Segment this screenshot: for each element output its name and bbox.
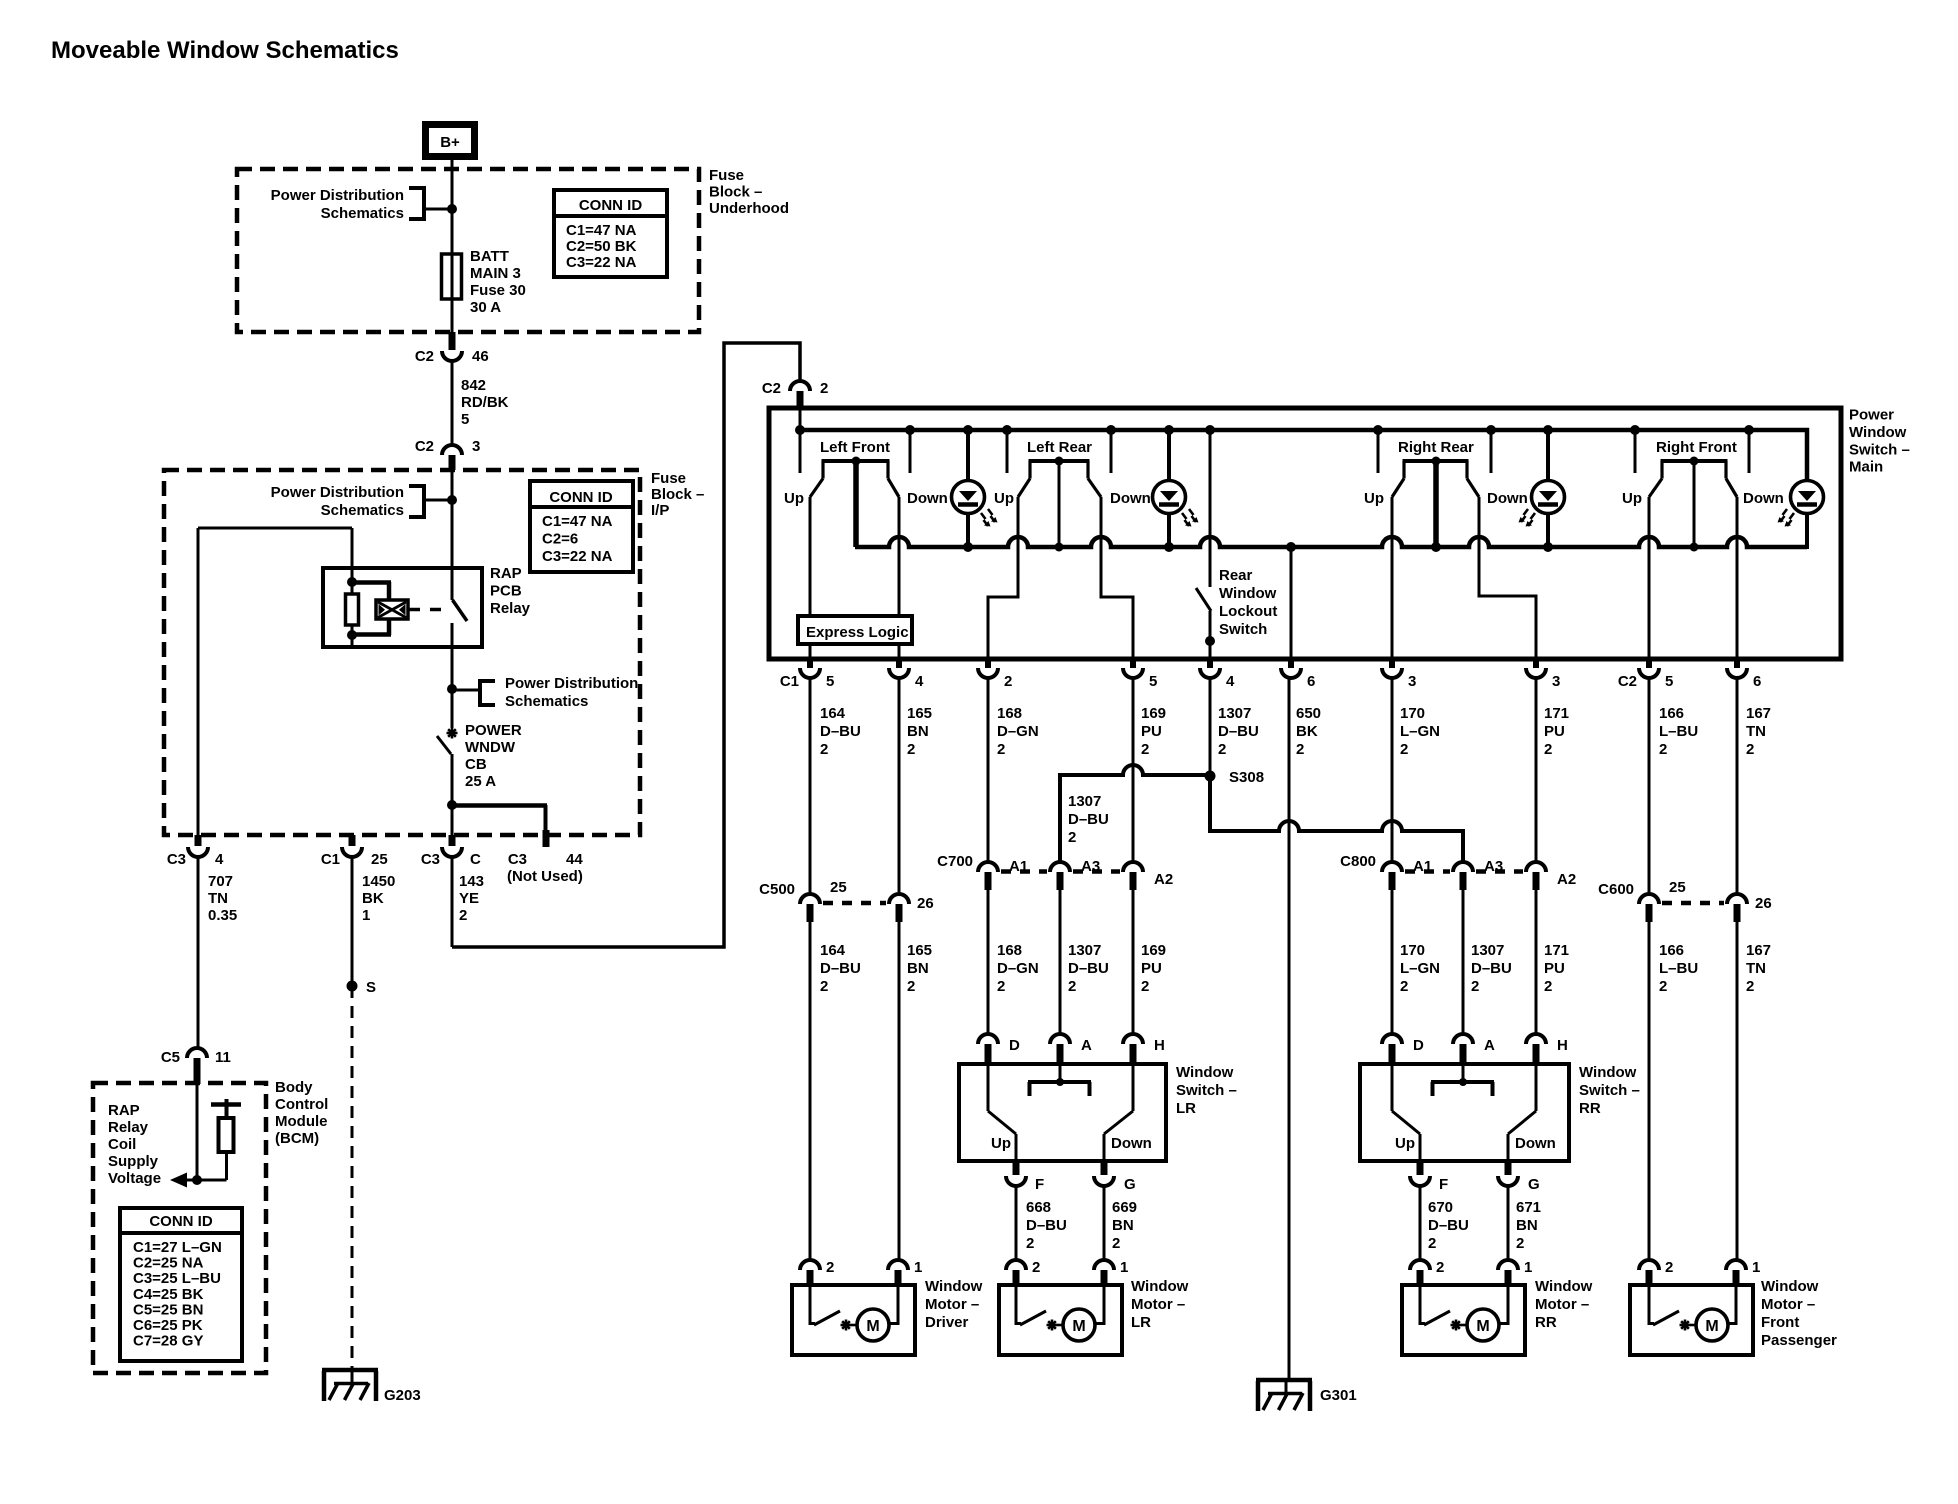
- wire 1307 D-BU 2: [1209, 678, 1212, 776]
- motor feed wire: [1507, 1285, 1510, 1325]
- rear window lockout switch: [1196, 588, 1211, 611]
- right rear up wire: [1391, 497, 1394, 659]
- svg-text:11: 11: [215, 1049, 231, 1066]
- svg-text:2: 2: [826, 1259, 834, 1276]
- wire 170 L-GN 2: [1391, 678, 1394, 862]
- connector C1 pin 25: [349, 835, 356, 846]
- svg-text:D–BU: D–BU: [1428, 1217, 1469, 1234]
- svg-text:46: 46: [472, 348, 489, 365]
- svg-text:Relay: Relay: [490, 600, 531, 617]
- window motor connector pin 1: [1094, 1260, 1114, 1270]
- svg-text:Power Distribution: Power Distribution: [271, 187, 404, 204]
- wire 168 to LR switch: [987, 890, 990, 1034]
- connector A (RR switch): [1453, 1034, 1473, 1044]
- svg-text:6: 6: [1307, 673, 1315, 690]
- svg-text:C5=25 BN: C5=25 BN: [133, 1301, 203, 1318]
- CONN ID table I/P: [530, 481, 633, 572]
- svg-text:Up: Up: [1622, 490, 1642, 507]
- svg-text:Power Distribution: Power Distribution: [505, 675, 638, 692]
- rocker switch body: [1661, 459, 1728, 463]
- svg-text:3: 3: [472, 438, 480, 455]
- splice branch to C700 A3: [1060, 765, 1210, 862]
- svg-text:Schematics: Schematics: [321, 502, 404, 519]
- svg-text:Fuse: Fuse: [651, 470, 686, 487]
- svg-text:Express Logic: Express Logic: [806, 624, 909, 641]
- svg-text:670: 670: [1428, 1199, 1453, 1216]
- wire 166 L-BU 2: [1648, 678, 1651, 894]
- window motor connector pin 2: [800, 1260, 820, 1270]
- motor M circle: [1063, 1309, 1095, 1341]
- connector D (RR switch): [1382, 1034, 1402, 1044]
- connector C1 pin 3 (right rear up): [1389, 659, 1395, 668]
- svg-text:PU: PU: [1544, 960, 1565, 977]
- wire relay to circuit breaker: [451, 647, 454, 728]
- wire 842 RD/BK 5: [451, 361, 454, 444]
- svg-text:1: 1: [1524, 1259, 1532, 1276]
- svg-text:A2: A2: [1154, 871, 1173, 888]
- svg-text:44: 44: [566, 851, 583, 868]
- svg-text:2: 2: [1659, 978, 1667, 995]
- svg-text:842: 842: [461, 377, 486, 394]
- svg-text:2: 2: [1026, 1235, 1034, 1252]
- svg-text:2: 2: [1471, 978, 1479, 995]
- connector C3 pin 4: [195, 835, 202, 846]
- wire 165 to driver motor: [898, 922, 901, 1260]
- power window switch main box: [769, 408, 1841, 659]
- wire 669 BN 2: [1103, 1186, 1106, 1260]
- svg-text:2: 2: [1665, 1259, 1673, 1276]
- wire 171 to RR switch: [1535, 890, 1538, 1034]
- LED left rear: [1167, 430, 1171, 481]
- motor M circle: [1696, 1309, 1728, 1341]
- svg-text:Window: Window: [1131, 1278, 1189, 1295]
- svg-text:CONN ID: CONN ID: [549, 489, 613, 506]
- svg-text:L–BU: L–BU: [1659, 723, 1698, 740]
- svg-text:2: 2: [1746, 978, 1754, 995]
- connector C500 pin 25: [800, 894, 820, 904]
- rear window lockout switch feed from bus: [1209, 430, 1212, 587]
- svg-text:B+: B+: [440, 134, 460, 151]
- svg-text:H: H: [1557, 1037, 1568, 1054]
- svg-text:2: 2: [1400, 741, 1408, 758]
- svg-text:H: H: [1154, 1037, 1165, 1054]
- svg-text:4: 4: [1226, 673, 1235, 690]
- connector C3 pin 44 not used stub: [543, 830, 550, 847]
- connector C1 pin 3 (right rear down): [1533, 659, 1539, 668]
- svg-text:1307: 1307: [1068, 942, 1101, 959]
- svg-text:164: 164: [820, 942, 846, 959]
- svg-text:2: 2: [820, 978, 828, 995]
- relay coil X symbol: [376, 600, 408, 619]
- connector C2 pin 3: [442, 445, 462, 455]
- svg-text:2: 2: [1659, 741, 1667, 758]
- svg-text:POWER: POWER: [465, 722, 522, 739]
- svg-text:2: 2: [459, 907, 467, 924]
- svg-text:25: 25: [1669, 879, 1686, 896]
- right rear down wire with jog: [1479, 497, 1536, 659]
- window motor connector pin 1: [1498, 1260, 1518, 1270]
- svg-text:RAP: RAP: [108, 1102, 140, 1119]
- svg-text:D–BU: D–BU: [820, 960, 861, 977]
- svg-text:RR: RR: [1535, 1314, 1557, 1331]
- svg-text:Right Rear: Right Rear: [1398, 439, 1474, 456]
- window motor box: [792, 1285, 915, 1355]
- motor feed wire: [1735, 1285, 1738, 1325]
- svg-text:1450: 1450: [362, 873, 395, 890]
- svg-text:Main: Main: [1849, 459, 1883, 476]
- body control module dashed box: [93, 1083, 266, 1373]
- fuse block I/P dashed box: [164, 470, 640, 835]
- svg-text:Schematics: Schematics: [505, 693, 588, 710]
- svg-text:LR: LR: [1131, 1314, 1151, 1331]
- rocker switch body: [1029, 459, 1090, 463]
- svg-text:3: 3: [1552, 673, 1560, 690]
- svg-text:Supply: Supply: [108, 1153, 159, 1170]
- connector C2 pin 46: [449, 332, 456, 350]
- svg-text:Up: Up: [784, 490, 804, 507]
- wire 164 D-BU 2: [809, 678, 812, 894]
- connector C2 pin 5 (right front up): [1646, 659, 1652, 668]
- svg-text:YE: YE: [459, 890, 479, 907]
- svg-text:6: 6: [1753, 673, 1761, 690]
- svg-text:1: 1: [362, 907, 370, 924]
- CONN ID table BCM: [120, 1208, 242, 1361]
- svg-text:Passenger: Passenger: [1761, 1332, 1837, 1349]
- svg-text:1: 1: [914, 1259, 922, 1276]
- svg-text:TN: TN: [1746, 723, 1766, 740]
- svg-text:Body: Body: [275, 1079, 313, 1096]
- svg-text:C3: C3: [508, 851, 527, 868]
- left front up wire: [809, 497, 812, 659]
- connector C3 pin C: [449, 835, 456, 846]
- svg-text:167: 167: [1746, 942, 1771, 959]
- left rear up wire with jog: [988, 497, 1018, 659]
- connector C800 A2: [1526, 862, 1546, 872]
- svg-text:Window: Window: [1761, 1278, 1819, 1295]
- svg-text:D: D: [1009, 1037, 1020, 1054]
- circuit breaker POWER WNDW CB 25A: [447, 732, 458, 735]
- common return line inside switch: [855, 537, 1807, 547]
- svg-text:Left Rear: Left Rear: [1027, 439, 1092, 456]
- svg-text:671: 671: [1516, 1199, 1541, 1216]
- svg-text:5: 5: [1665, 673, 1673, 690]
- svg-text:1307: 1307: [1218, 705, 1251, 722]
- connector C1 pin 5: [807, 659, 813, 668]
- svg-text:C3=22 NA: C3=22 NA: [566, 254, 637, 271]
- window motor connector pin 1: [888, 1260, 908, 1270]
- ground return drop inside switch: [1290, 547, 1293, 659]
- connector C800 A3: [1453, 862, 1473, 872]
- svg-text:PU: PU: [1141, 723, 1162, 740]
- motor internal switch blade: [1419, 1285, 1422, 1325]
- svg-text:C2: C2: [415, 348, 434, 365]
- splice branch to C800 A3: [1210, 776, 1463, 862]
- svg-text:Motor –: Motor –: [1761, 1296, 1815, 1313]
- window switch RR box: [1360, 1064, 1569, 1161]
- wire C2-2 to left front up contact: [799, 409, 802, 473]
- svg-text:Down: Down: [907, 490, 948, 507]
- connector F (LR): [1013, 1161, 1020, 1175]
- svg-text:166: 166: [1659, 942, 1684, 959]
- svg-text:C600: C600: [1598, 881, 1634, 898]
- BCM internal pull-up resistor: [211, 1102, 241, 1107]
- svg-text:Fuse: Fuse: [709, 167, 744, 184]
- svg-text:CONN ID: CONN ID: [579, 197, 643, 214]
- svg-text:Up: Up: [991, 1135, 1011, 1152]
- motor feed wire: [897, 1285, 900, 1325]
- svg-text:L–GN: L–GN: [1400, 960, 1440, 977]
- wire 166 to front passenger motor: [1648, 922, 1651, 1260]
- svg-text:BN: BN: [907, 960, 929, 977]
- svg-text:169: 169: [1141, 705, 1166, 722]
- wire 1307 to LR switch: [1059, 890, 1062, 1034]
- svg-text:Moveable Window Schematics: Moveable Window Schematics: [51, 37, 399, 64]
- svg-text:BK: BK: [1296, 723, 1318, 740]
- motor thermal limit asterisk: [1451, 1324, 1462, 1327]
- svg-text:L–BU: L–BU: [1659, 960, 1698, 977]
- svg-text:2: 2: [1400, 978, 1408, 995]
- svg-text:C1=47 NA: C1=47 NA: [542, 513, 613, 530]
- svg-text:S: S: [366, 979, 376, 996]
- svg-text:M: M: [866, 1318, 879, 1335]
- motor thermal limit asterisk: [1047, 1324, 1058, 1327]
- svg-text:669: 669: [1112, 1199, 1137, 1216]
- svg-text:C1=47 NA: C1=47 NA: [566, 222, 637, 239]
- svg-text:164: 164: [820, 705, 846, 722]
- wire B+ to fuse block: [451, 160, 454, 254]
- svg-text:2: 2: [1032, 1259, 1040, 1276]
- svg-text:C7=28 GY: C7=28 GY: [133, 1333, 203, 1350]
- svg-text:Motor –: Motor –: [1131, 1296, 1185, 1313]
- svg-text:Relay: Relay: [108, 1119, 149, 1136]
- svg-text:Window: Window: [925, 1278, 983, 1295]
- window motor connector pin 1: [1726, 1260, 1746, 1270]
- svg-text:Down: Down: [1515, 1135, 1556, 1152]
- svg-text:Window: Window: [1219, 585, 1277, 602]
- svg-text:169: 169: [1141, 942, 1166, 959]
- svg-text:2: 2: [1428, 1235, 1436, 1252]
- svg-text:Down: Down: [1487, 490, 1528, 507]
- svg-text:WNDW: WNDW: [465, 739, 516, 756]
- svg-text:2: 2: [1112, 1235, 1120, 1252]
- svg-text:C1=27 L–GN: C1=27 L–GN: [133, 1239, 222, 1256]
- svg-text:2: 2: [1141, 978, 1149, 995]
- svg-text:TN: TN: [1746, 960, 1766, 977]
- express logic box: [798, 616, 912, 644]
- svg-text:2: 2: [1068, 978, 1076, 995]
- svg-text:26: 26: [917, 895, 934, 912]
- svg-text:Up: Up: [994, 490, 1014, 507]
- svg-text:Switch: Switch: [1219, 621, 1267, 638]
- svg-text:2: 2: [820, 380, 828, 397]
- svg-text:Up: Up: [1395, 1135, 1415, 1152]
- svg-text:L–GN: L–GN: [1400, 723, 1440, 740]
- svg-text:C4=25 BK: C4=25 BK: [133, 1286, 204, 1303]
- svg-text:Switch –: Switch –: [1176, 1082, 1237, 1099]
- svg-text:A2: A2: [1557, 871, 1576, 888]
- svg-text:C800: C800: [1340, 853, 1376, 870]
- motor feed wire: [1103, 1285, 1106, 1325]
- svg-text:G: G: [1124, 1176, 1136, 1193]
- switch fixed contact stub (down): [1490, 430, 1493, 473]
- svg-text:Block –: Block –: [651, 486, 704, 503]
- svg-text:166: 166: [1659, 705, 1684, 722]
- connector C1 pin 4 (lockout): [1207, 659, 1213, 668]
- window motor connector pin 2: [1639, 1260, 1659, 1270]
- svg-text:C3: C3: [167, 851, 186, 868]
- svg-text:D–GN: D–GN: [997, 723, 1039, 740]
- svg-text:Switch –: Switch –: [1849, 441, 1910, 458]
- svg-text:2: 2: [820, 741, 828, 758]
- svg-text:2: 2: [1436, 1259, 1444, 1276]
- wire 143 YE 2: [451, 857, 454, 947]
- connector A (LR switch): [1050, 1034, 1070, 1044]
- svg-text:2: 2: [1544, 741, 1552, 758]
- svg-text:2: 2: [1516, 1235, 1524, 1252]
- svg-text:M: M: [1072, 1318, 1085, 1335]
- C700 dashed connector links: [1001, 869, 1047, 874]
- svg-text:M: M: [1476, 1318, 1489, 1335]
- svg-text:668: 668: [1026, 1199, 1051, 1216]
- svg-text:PU: PU: [1141, 960, 1162, 977]
- battery terminal B+: [426, 125, 475, 157]
- wire 171 PU 2: [1535, 678, 1538, 862]
- wire 650 BK 2 to ground G301: [1288, 678, 1291, 1380]
- svg-text:RD/BK: RD/BK: [461, 394, 509, 411]
- switch fixed contact stub (down): [1748, 430, 1751, 473]
- svg-text:F: F: [1439, 1176, 1448, 1193]
- svg-text:CONN ID: CONN ID: [149, 1213, 213, 1230]
- left front down wire: [898, 497, 901, 659]
- C600 dashed connector link: [1662, 901, 1724, 906]
- wire 167 TN 2: [1736, 678, 1739, 894]
- RR switch common tbar: [1462, 1064, 1465, 1082]
- LED right rear: [1546, 430, 1550, 481]
- svg-text:A: A: [1484, 1037, 1495, 1054]
- svg-text:M: M: [1705, 1318, 1718, 1335]
- svg-text:3: 3: [1408, 673, 1416, 690]
- svg-text:C6=25 PK: C6=25 PK: [133, 1317, 203, 1334]
- svg-text:Schematics: Schematics: [321, 205, 404, 222]
- fuse BATT MAIN 3 30A: [451, 209, 454, 254]
- svg-text:2: 2: [997, 978, 1005, 995]
- svg-text:1307: 1307: [1471, 942, 1504, 959]
- wire 165 BN 2: [898, 678, 901, 894]
- relay actuation dashed link: [409, 608, 450, 612]
- wire 168 D-GN 2: [987, 678, 990, 862]
- supply bus inside switch: [800, 430, 1807, 481]
- svg-text:1: 1: [1120, 1259, 1128, 1276]
- wire 1450 BK 1: [351, 857, 354, 986]
- svg-text:D–BU: D–BU: [1068, 811, 1109, 828]
- svg-text:170: 170: [1400, 705, 1425, 722]
- wire 169 PU 2: [1132, 678, 1135, 862]
- wire 671 BN 2: [1507, 1186, 1510, 1260]
- svg-text:Left Front: Left Front: [820, 439, 890, 456]
- connector C500 pin 26: [889, 894, 909, 904]
- svg-text:167: 167: [1746, 705, 1771, 722]
- svg-text:Power: Power: [1849, 407, 1894, 424]
- wire 1307 to RR switch: [1462, 890, 1465, 1034]
- fuse block underhood dashed box: [237, 169, 699, 332]
- motor M circle: [1467, 1309, 1499, 1341]
- window motor box: [1630, 1285, 1753, 1355]
- motor internal switch blade: [809, 1285, 812, 1325]
- svg-text:2: 2: [1004, 673, 1012, 690]
- motor thermal limit asterisk: [1680, 1324, 1691, 1327]
- connector C1 pin 6 (ground): [1288, 659, 1294, 668]
- right front down wire: [1736, 497, 1739, 659]
- svg-text:Down: Down: [1111, 1135, 1152, 1152]
- svg-text:2: 2: [1141, 741, 1149, 758]
- svg-text:1: 1: [1752, 1259, 1760, 1276]
- svg-text:(BCM): (BCM): [275, 1130, 319, 1147]
- svg-text:4: 4: [915, 673, 924, 690]
- left rear down wire with jog: [1101, 497, 1133, 659]
- LED left front: [966, 430, 970, 481]
- svg-text:F: F: [1035, 1176, 1044, 1193]
- rocker switch body: [822, 459, 890, 463]
- svg-text:C3=22 NA: C3=22 NA: [542, 548, 613, 565]
- LR switch up contact: [987, 1064, 990, 1111]
- svg-text:BN: BN: [1516, 1217, 1538, 1234]
- svg-text:25 A: 25 A: [465, 773, 496, 790]
- svg-text:C: C: [470, 851, 481, 868]
- svg-text:Right Front: Right Front: [1656, 439, 1737, 456]
- switch fixed contact stub (up): [799, 430, 802, 473]
- wire 143 YE routing to power window switch: [452, 343, 800, 947]
- svg-text:2: 2: [1218, 741, 1226, 758]
- svg-text:30 A: 30 A: [470, 299, 501, 316]
- connector D (LR switch): [978, 1034, 998, 1044]
- svg-text:CB: CB: [465, 756, 487, 773]
- svg-text:D–BU: D–BU: [1471, 960, 1512, 977]
- relay RAP PCB box: [323, 568, 482, 647]
- svg-text:Voltage: Voltage: [108, 1170, 161, 1187]
- connector F (RR): [1417, 1161, 1424, 1175]
- svg-text:5: 5: [1149, 673, 1157, 690]
- svg-text:MAIN 3: MAIN 3: [470, 265, 521, 282]
- connector G (RR): [1505, 1161, 1512, 1175]
- C800 dashed connector links: [1405, 869, 1450, 874]
- svg-text:Up: Up: [1364, 490, 1384, 507]
- svg-text:C2=25 NA: C2=25 NA: [133, 1255, 204, 1272]
- svg-text:Underhood: Underhood: [709, 200, 789, 217]
- CONN ID table underhood: [554, 190, 667, 277]
- splice node S: [347, 981, 358, 992]
- connector C5 pin 11: [187, 1048, 207, 1058]
- relay coil branch wire: [198, 527, 352, 530]
- svg-text:2: 2: [1544, 978, 1552, 995]
- svg-text:2: 2: [907, 741, 915, 758]
- svg-text:2: 2: [1296, 741, 1304, 758]
- svg-text:Rear: Rear: [1219, 567, 1253, 584]
- svg-text:D–BU: D–BU: [1218, 723, 1259, 740]
- svg-text:Front: Front: [1761, 1314, 1799, 1331]
- connector C600 pin 26: [1727, 894, 1747, 904]
- ground G203: [322, 1368, 378, 1373]
- connector C2 pin 2: [790, 381, 810, 391]
- svg-text:Window: Window: [1535, 1278, 1593, 1295]
- svg-text:Control: Control: [275, 1096, 328, 1113]
- svg-text:Module: Module: [275, 1113, 328, 1130]
- svg-text:Motor –: Motor –: [925, 1296, 979, 1313]
- svg-text:C2: C2: [415, 438, 434, 455]
- return line junction dots: [963, 542, 973, 552]
- wire 167 to front passenger motor: [1736, 922, 1739, 1260]
- RR switch up contact: [1391, 1064, 1394, 1111]
- callout power distribution schematics (relay out): [447, 684, 457, 694]
